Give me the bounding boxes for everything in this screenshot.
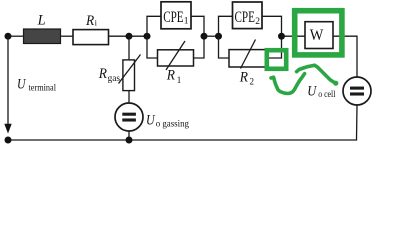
svg-text:1: 1 <box>184 17 189 27</box>
wire: branch2 lower right (R2 to node) <box>266 36 282 58</box>
label CPE1 <box>163 9 189 27</box>
wire: branch1 lower left (to R1) <box>147 36 158 58</box>
capacitor CPE2 <box>233 2 263 29</box>
svg-text:o gassing: o gassing <box>156 120 190 130</box>
svg-text:o cell: o cell <box>318 90 335 100</box>
label Rgas <box>98 66 120 84</box>
highlight: green rectangle around W <box>295 11 342 55</box>
svg-text:U: U <box>17 77 26 93</box>
highlight: scribble end blob <box>333 81 338 86</box>
wire: branch1 upper right (CPE1 to node) <box>191 16 204 36</box>
wire: branch2 node to Warburg box <box>282 35 306 37</box>
svg-text:R: R <box>85 13 94 29</box>
node: branch1 right <box>201 33 208 40</box>
label R2 <box>239 70 254 87</box>
wire: inductor to resistor Ri <box>61 35 74 37</box>
svg-text:terminal: terminal <box>29 84 57 94</box>
highlight: green scribble under Uo-cell (left dip) <box>271 74 305 94</box>
wire: branch1 node to branch2 node <box>204 35 219 37</box>
resistor R1 <box>158 41 194 70</box>
resistor Rgas <box>119 55 141 91</box>
wire: branch2 upper left (to CPE2) <box>219 16 233 36</box>
wire: branch2 lower left (to R2) <box>219 36 230 58</box>
wire: Warburg to right riser <box>333 36 357 77</box>
label CPE2 <box>235 9 261 27</box>
node: branch2 right <box>278 33 285 40</box>
resistor R2 <box>229 40 266 69</box>
svg-text:W: W <box>310 27 324 44</box>
svg-text:R: R <box>166 67 175 83</box>
wire: branch2 upper right (CPE2 to node) <box>262 16 282 36</box>
svg-text:R: R <box>98 66 107 82</box>
resistor Ri <box>73 30 109 45</box>
node: branch1 left <box>144 33 151 40</box>
svg-text:1: 1 <box>177 75 182 85</box>
source Uo-cell <box>343 77 371 105</box>
svg-text:L: L <box>37 12 46 28</box>
node: input terminal node <box>5 33 12 40</box>
capacitor CPE1 <box>161 2 191 29</box>
svg-text:CPE: CPE <box>235 9 255 26</box>
svg-text:R: R <box>239 70 248 86</box>
svg-text:gas: gas <box>108 74 121 84</box>
node: bottom left terminal <box>5 137 12 144</box>
svg-text:i: i <box>95 18 98 28</box>
label Uterminal <box>17 77 56 94</box>
svg-text:2: 2 <box>250 76 255 86</box>
wire: input node to inductor <box>8 35 24 37</box>
wire: branch1 upper left (to CPE1) <box>147 16 161 36</box>
wire: Rgas junction drop <box>128 36 130 60</box>
warburg W <box>305 22 333 49</box>
node: Rgas junction <box>126 33 133 40</box>
arrowhead of Uterminal <box>4 124 11 134</box>
label Uo-gassing <box>146 113 189 130</box>
node: bottom gassing junction <box>126 137 133 144</box>
wire: Uo-cell to bottom bus corner <box>8 105 357 140</box>
wire: Ri to Rgas junction <box>109 35 130 37</box>
label Ri <box>85 13 98 29</box>
source Uo-gassing <box>115 103 143 131</box>
inductor L <box>24 29 61 44</box>
label R1 <box>166 67 181 85</box>
svg-text:2: 2 <box>255 17 260 27</box>
node: branch2 left <box>215 33 222 40</box>
wire: Rgas junction to branch1 node <box>129 35 147 37</box>
wire: gassing source to bottom bus <box>128 131 130 140</box>
wire: branch1 lower right (R1 to node) <box>194 36 205 58</box>
label Uo-cell <box>307 83 335 100</box>
svg-text:CPE: CPE <box>163 9 183 26</box>
svg-text:U: U <box>307 83 317 99</box>
highlight: green square on R2 output node <box>267 50 286 69</box>
svg-text:U: U <box>146 113 156 129</box>
wire: left terminal voltage arrow stem <box>7 36 9 124</box>
highlight: green scribble under Uo-cell (peak) <box>297 65 336 83</box>
wire: Rgas to gassing source <box>128 91 130 104</box>
